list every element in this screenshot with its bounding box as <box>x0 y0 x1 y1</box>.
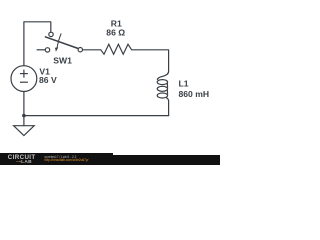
coil loop 3 <box>157 93 167 98</box>
resistor R1 <box>101 44 132 54</box>
svg-text:86 V: 86 V <box>39 75 57 85</box>
switch left stub wire <box>37 49 46 51</box>
wire V1 bottom to junction <box>23 92 25 116</box>
coil link 2-3 <box>166 90 168 95</box>
wire junction to ground <box>23 116 25 126</box>
switch actuator arrow <box>57 33 61 48</box>
watermark CircuitLab logo <box>8 155 36 161</box>
switch throw terminal top circle <box>49 32 53 36</box>
node junction at V1 bottom <box>22 114 26 118</box>
ground <box>14 126 35 136</box>
coil entry hook <box>157 71 168 80</box>
wire switch common to R1 <box>83 49 101 51</box>
wire R1 to top-right corner and down right rail <box>132 50 169 72</box>
switch SW1 <box>37 32 83 52</box>
wire bottom rail <box>24 115 169 117</box>
wire inductor bottom to bottom rail <box>168 101 170 115</box>
svg-text:SW1: SW1 <box>53 56 72 66</box>
coil loop 2 <box>157 86 167 91</box>
wire top-left from V1 to switch <box>24 22 51 66</box>
watermark title text <box>45 155 77 159</box>
voltage source V1 <box>11 66 37 92</box>
coil link 1-2 <box>166 83 168 88</box>
switch throw terminal left circle <box>45 48 49 52</box>
svg-text:860 mH: 860 mH <box>179 89 210 99</box>
svg-text:86 Ω: 86 Ω <box>106 28 125 38</box>
switch common terminal right circle <box>78 48 82 52</box>
svg-text:L1: L1 <box>179 79 189 89</box>
inductor L1 <box>157 71 168 101</box>
coil exit hook <box>166 98 168 101</box>
switch blade <box>45 37 78 49</box>
watermark bar <box>0 153 113 165</box>
coil loop 1 <box>157 80 167 85</box>
watermark url text <box>45 158 89 162</box>
